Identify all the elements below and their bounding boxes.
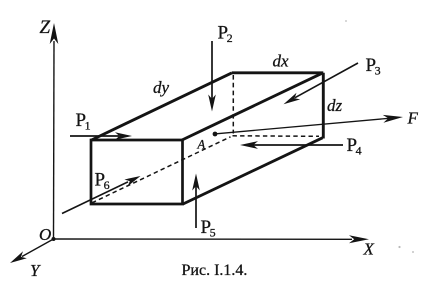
hidden edge back-bottom <box>233 135 320 138</box>
svg-text:O: O <box>39 225 51 244</box>
box edge back-right (dz) <box>322 73 325 139</box>
svg-text:P6: P6 <box>95 170 110 193</box>
scan speck <box>398 246 400 248</box>
svg-text:P2: P2 <box>218 23 233 46</box>
hidden edge back-left vertical <box>232 75 234 134</box>
axis F line <box>216 115 403 134</box>
svg-text:dz: dz <box>327 96 343 115</box>
box edge top-right <box>182 73 323 140</box>
box edge dy (top-left) <box>92 73 233 140</box>
force P3 arrow <box>284 63 359 104</box>
svg-text:P4: P4 <box>347 135 362 158</box>
scan speck <box>345 20 347 22</box>
svg-text:P3: P3 <box>366 55 381 78</box>
force P2 arrow <box>208 41 216 112</box>
svg-text:Z: Z <box>40 17 51 38</box>
svg-text:F: F <box>407 109 419 128</box>
origin dot <box>52 237 56 241</box>
box edge bottom-right <box>183 138 323 204</box>
axis Z <box>50 23 59 239</box>
force P5 arrow <box>192 174 200 229</box>
node A dot <box>213 132 218 137</box>
svg-text:dx: dx <box>273 52 290 71</box>
svg-text:dy: dy <box>153 78 170 97</box>
box edge back-top (dx) <box>232 71 323 74</box>
svg-text:X: X <box>363 240 375 259</box>
svg-text:P1: P1 <box>76 110 91 133</box>
force P4 arrow <box>240 141 343 149</box>
svg-text:A: A <box>197 137 206 151</box>
svg-text:Рис. I.1.4.: Рис. I.1.4. <box>182 262 248 279</box>
axis X <box>54 235 370 243</box>
svg-text:P5: P5 <box>201 217 216 240</box>
box front face <box>91 140 183 204</box>
force P6 arrow <box>62 176 141 214</box>
force P1 arrow <box>70 132 132 140</box>
hidden edge bottom-left diagonal <box>92 137 231 203</box>
axis Y <box>10 239 54 263</box>
scan speck <box>412 251 414 253</box>
svg-text:Y: Y <box>30 261 41 280</box>
